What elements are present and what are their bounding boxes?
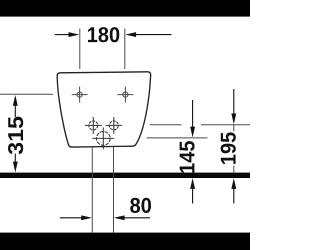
label 195 — [221, 132, 236, 164]
label 180 — [88, 27, 119, 42]
wire: extension line left (180 dim) — [79, 29, 81, 70]
label 80 — [130, 198, 151, 213]
hole mid-right crosshair — [105, 117, 122, 134]
dimension 145 below-floor up arrow — [190, 178, 195, 203]
dimension 80 left arrow — [60, 215, 92, 220]
label 145 — [180, 141, 195, 173]
hole top-left crosshair — [72, 87, 88, 103]
top letterbox band — [0, 0, 250, 17]
wire: extension line 145 horizontal — [147, 137, 208, 139]
dimension 315 top arrow — [13, 95, 18, 117]
wire: extension line 195 horizontal — [150, 124, 250, 126]
hole mid-left crosshair — [85, 117, 102, 134]
bidet outline — [57, 72, 150, 147]
hole top-right crosshair — [117, 87, 133, 103]
dimension 145 down arrow — [190, 100, 195, 137]
label 315 — [8, 117, 23, 155]
dimension 195 down arrow — [231, 89, 236, 124]
dimension 315 bottom arrow — [13, 154, 18, 173]
bottom letterbox band — [0, 233, 250, 250]
wire: 195 dim line segments through span — [233, 125, 235, 173]
floor line — [0, 173, 250, 178]
dimension 80 right arrow — [114, 215, 150, 220]
wire: extension line 315 horizontal — [0, 93, 53, 95]
wire: extension verticals for 80 dim — [92, 147, 113, 233]
hole large drain crosshair — [92, 127, 114, 149]
dimension 195 below-floor up arrow — [231, 178, 236, 203]
dimension 180 right arrow — [125, 32, 171, 37]
wire: extension line right (180 dim) — [124, 29, 126, 70]
dimension 180 left arrow — [55, 32, 80, 37]
